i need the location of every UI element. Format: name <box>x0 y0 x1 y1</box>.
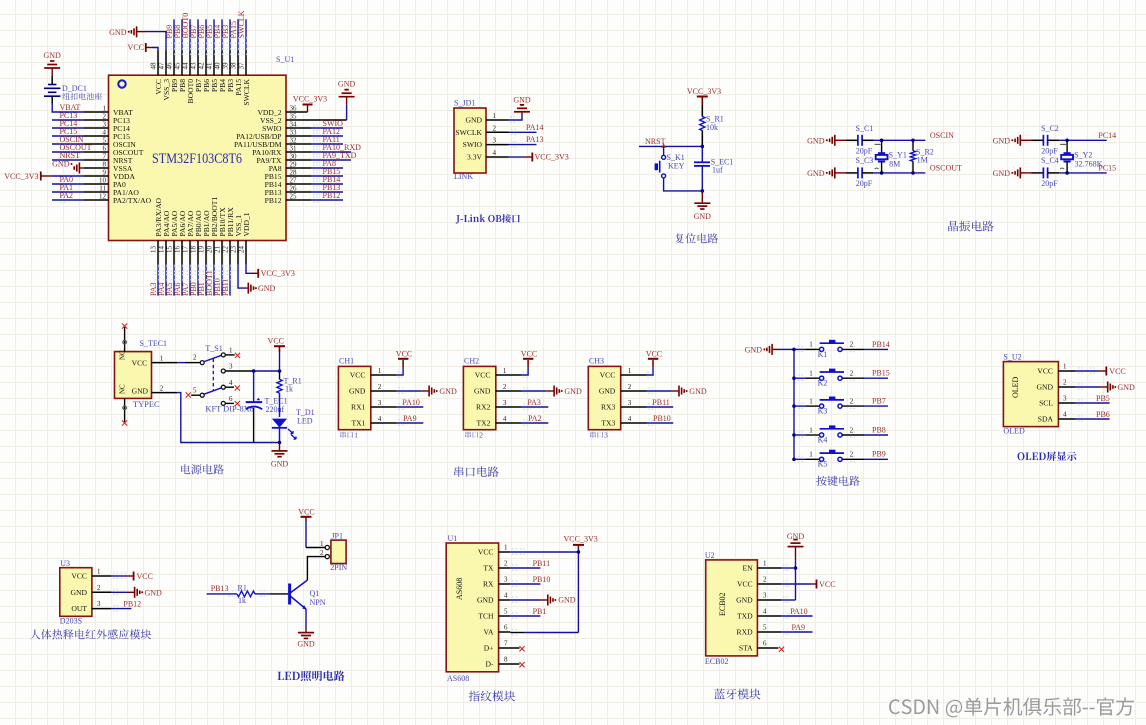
title LED lighting circuit <box>278 671 345 682</box>
svg-text:VCC: VCC <box>137 572 153 581</box>
fingerprint TX wire PB11 <box>510 559 550 570</box>
svg-text:EN: EN <box>742 564 753 573</box>
resistor S_R2 1M <box>910 139 933 175</box>
CH1 VCC port <box>396 349 412 377</box>
top net wires <box>165 10 250 54</box>
svg-text:36: 36 <box>290 105 298 113</box>
svg-text:32: 32 <box>290 137 298 145</box>
svg-text:1: 1 <box>809 341 813 349</box>
connector TEC1 TYPEC body <box>115 339 168 409</box>
svg-text:2: 2 <box>160 385 164 393</box>
wire VCC/VA rail <box>510 549 580 635</box>
capacitor S_C4 20pF <box>1032 156 1060 188</box>
svg-text:45: 45 <box>173 62 181 70</box>
svg-text:NPN: NPN <box>310 598 326 607</box>
svg-text:3: 3 <box>604 431 608 440</box>
CH1 RX wire PA10 <box>397 398 424 410</box>
svg-text:PB10: PB10 <box>533 575 551 584</box>
svg-text:PB14: PB14 <box>872 340 890 349</box>
svg-text:VCC_3V3: VCC_3V3 <box>535 153 569 162</box>
JD1 pin2 wire PA14 <box>509 123 544 135</box>
svg-text:ECB02: ECB02 <box>705 657 729 666</box>
svg-text:VCC_3V3: VCC_3V3 <box>687 87 721 96</box>
svg-text:GND: GND <box>349 387 366 396</box>
connector JD1 J-Link body <box>454 99 509 181</box>
svg-text:PA9: PA9 <box>403 414 417 423</box>
svg-text:GND: GND <box>439 387 457 396</box>
VCC_3V3 port fingerprint <box>564 535 598 551</box>
svg-text:D+: D+ <box>484 644 494 653</box>
ground at VSS_3 pin47 <box>109 26 166 50</box>
svg-text:PA10: PA10 <box>402 398 420 407</box>
svg-text:2: 2 <box>850 370 854 378</box>
svg-text:1: 1 <box>809 426 813 434</box>
title key circuit <box>816 476 859 486</box>
svg-text:2: 2 <box>503 383 507 391</box>
svg-text:2: 2 <box>479 431 483 440</box>
svg-text:34: 34 <box>290 121 298 129</box>
bluetooth EN/GND rail <box>782 561 798 603</box>
svg-text:PA3: PA3 <box>527 398 541 407</box>
MCU bottom pin stubs 13-24 <box>149 241 246 265</box>
svg-text:1: 1 <box>160 355 164 363</box>
svg-text:5: 5 <box>504 608 508 616</box>
svg-text:NC: NC <box>119 350 127 360</box>
svg-text:AS608: AS608 <box>455 578 464 600</box>
svg-text:8: 8 <box>103 161 107 169</box>
svg-text:RX: RX <box>483 580 494 589</box>
svg-text:PB7: PB7 <box>872 397 886 406</box>
ground at VSS_1 pin23 <box>238 265 276 294</box>
title fingerprint module <box>469 691 516 702</box>
push button K2 <box>794 369 890 388</box>
svg-text:LED: LED <box>297 416 313 425</box>
svg-text:S_U1: S_U1 <box>276 55 294 64</box>
resistor T_R1 1k <box>277 371 302 417</box>
svg-text:VCC: VCC <box>819 580 835 589</box>
OLED GND wire <box>1076 382 1135 393</box>
svg-text:6: 6 <box>229 395 233 403</box>
svg-text:2: 2 <box>493 124 497 132</box>
svg-text:VCC: VCC <box>521 349 537 358</box>
svg-text:1: 1 <box>97 568 101 576</box>
title crystal circuit <box>948 221 994 232</box>
svg-text:VCC: VCC <box>646 349 662 358</box>
svg-text:1uf: 1uf <box>712 165 723 174</box>
svg-text:RX2: RX2 <box>476 403 491 412</box>
svg-text:VCC: VCC <box>128 43 144 52</box>
svg-text:47: 47 <box>157 62 165 70</box>
switch T_S1 KFT DIP-8X8 <box>177 344 281 414</box>
svg-text:33: 33 <box>290 129 298 137</box>
svg-text:STA: STA <box>739 644 753 653</box>
ground at battery <box>44 51 62 76</box>
svg-text:PA2: PA2 <box>528 414 542 423</box>
svg-text:K5: K5 <box>818 460 828 469</box>
title serial circuit <box>454 466 498 477</box>
svg-text:38: 38 <box>229 62 237 70</box>
svg-text:2: 2 <box>628 383 632 391</box>
fingerprint D- no connect <box>519 662 524 667</box>
svg-text:3: 3 <box>97 600 101 608</box>
svg-text:K4: K4 <box>818 435 828 444</box>
OLED SDA wire PB6 <box>1076 410 1110 422</box>
CH3 TX wire PB10 <box>647 414 674 426</box>
svg-text:PB12: PB12 <box>123 599 141 608</box>
svg-text:VCC_3V3: VCC_3V3 <box>564 535 598 544</box>
svg-text:6: 6 <box>763 640 767 648</box>
CH2 TX wire PA2 <box>522 414 549 426</box>
svg-text:30: 30 <box>290 153 298 161</box>
VCC port led <box>298 508 314 548</box>
svg-text:2: 2 <box>850 341 854 349</box>
resistor R1 1k <box>207 584 288 606</box>
svg-text:KEY: KEY <box>668 162 685 171</box>
svg-text:16: 16 <box>173 246 181 254</box>
wire battery to VBAT <box>52 104 84 113</box>
svg-text:VCC_3V3: VCC_3V3 <box>293 95 327 104</box>
svg-text:PA9: PA9 <box>792 623 806 632</box>
svg-text:S_TEC1: S_TEC1 <box>140 339 168 348</box>
svg-text:GND: GND <box>993 169 1011 178</box>
svg-text:17: 17 <box>181 246 189 254</box>
VCC_3V3 port at VDD_2 pin36 <box>293 95 327 113</box>
wire VCC to JP1 pin1 <box>306 547 325 549</box>
svg-text:GND: GND <box>736 596 753 605</box>
svg-text:PB10: PB10 <box>653 414 671 423</box>
svg-text:VCC: VCC <box>475 371 491 380</box>
svg-text:40: 40 <box>213 62 221 70</box>
capacitor T_EC1 220uf <box>246 371 288 443</box>
svg-text:OLED: OLED <box>1011 376 1020 398</box>
ground at VSS_2 pin35 <box>338 80 356 121</box>
svg-text:7: 7 <box>504 640 508 648</box>
bluetooth TXD wire PA10 <box>782 607 813 618</box>
svg-text:PB9: PB9 <box>872 450 886 459</box>
CH1 GND wire <box>397 386 457 397</box>
svg-text:TX2: TX2 <box>476 419 490 428</box>
svg-text:K2: K2 <box>818 379 828 388</box>
fingerprint U1 AS608 body <box>446 534 519 683</box>
svg-text:GND: GND <box>1037 383 1054 392</box>
svg-text:VCC_3V3: VCC_3V3 <box>4 172 38 181</box>
svg-text:9: 9 <box>103 169 107 177</box>
svg-text:6: 6 <box>103 145 107 153</box>
OLED VCC wire <box>1076 367 1126 376</box>
svg-text:6: 6 <box>504 624 508 632</box>
svg-text:20pF: 20pF <box>856 147 873 156</box>
CH3 VCC port <box>646 349 662 377</box>
svg-text:PC15: PC15 <box>1098 164 1116 173</box>
ground at VSSA pin8 <box>52 160 84 174</box>
VCC_3V3 port at VDD_1 pin24 <box>246 265 295 278</box>
fingerprint TCH wire PB1 <box>510 607 546 618</box>
svg-text:S_U2: S_U2 <box>1003 353 1021 362</box>
svg-text:RX3: RX3 <box>601 403 616 412</box>
wire Q1 emitter to ground <box>297 609 315 648</box>
svg-text:20pF: 20pF <box>1041 147 1058 156</box>
svg-text:U1: U1 <box>448 534 458 543</box>
capacitor S_C2 20pF <box>1032 124 1060 156</box>
svg-text:2PIN: 2PIN <box>330 563 347 572</box>
svg-text:GND: GND <box>271 460 289 469</box>
svg-text:2: 2 <box>504 560 508 568</box>
connector CH3 body <box>588 357 646 430</box>
MCU U1 STM32F103C8T6 body <box>109 55 295 241</box>
svg-text:1: 1 <box>378 367 382 375</box>
svg-text:3: 3 <box>229 363 233 371</box>
svg-text:19: 19 <box>197 246 205 254</box>
svg-text:Q1: Q1 <box>310 589 320 598</box>
svg-text:VCC: VCC <box>1109 367 1125 376</box>
capacitor S_C3 20pF <box>846 156 874 188</box>
svg-text:OSCOUT: OSCOUT <box>930 164 962 173</box>
svg-text:4: 4 <box>503 415 507 423</box>
svg-text:PB5: PB5 <box>1096 394 1110 403</box>
connector JP1 2PIN body <box>320 532 347 573</box>
svg-text:GND: GND <box>558 596 576 605</box>
svg-text:7: 7 <box>103 153 107 161</box>
svg-text:T_S1: T_S1 <box>205 344 222 353</box>
svg-text:3: 3 <box>103 121 107 129</box>
svg-text:TYPEC: TYPEC <box>133 400 160 409</box>
svg-text:1: 1 <box>628 367 632 375</box>
svg-text:3: 3 <box>493 137 497 145</box>
svg-text:1: 1 <box>809 451 813 459</box>
svg-text:35: 35 <box>290 113 298 121</box>
svg-text:2: 2 <box>320 549 324 557</box>
svg-text:1: 1 <box>809 397 813 405</box>
svg-text:41: 41 <box>205 62 213 70</box>
transistor Q1 NPN <box>290 580 326 610</box>
svg-text:K1: K1 <box>818 350 828 359</box>
svg-text:PB15: PB15 <box>872 369 890 378</box>
svg-text:14: 14 <box>157 246 165 254</box>
svg-text:VCC_3V3: VCC_3V3 <box>261 269 295 278</box>
svg-text:U2: U2 <box>705 551 715 560</box>
svg-text:PA10: PA10 <box>790 607 808 616</box>
svg-text:GND: GND <box>745 345 763 354</box>
CH2 RX wire PA3 <box>522 398 549 410</box>
ground keys <box>745 344 794 355</box>
svg-text:CH2: CH2 <box>464 357 479 366</box>
JD1 pin4 wire VCC_3V3 <box>509 153 569 162</box>
svg-text:PA2/TX/AO: PA2/TX/AO <box>113 196 152 205</box>
MCU top pin stubs 37-48 <box>149 51 246 76</box>
svg-text:VCC: VCC <box>132 359 148 368</box>
title J-Link OB interface <box>456 214 520 224</box>
svg-text:GND: GND <box>1118 383 1136 392</box>
svg-text:GND: GND <box>694 212 712 221</box>
svg-text:46: 46 <box>165 62 173 70</box>
svg-text:4: 4 <box>628 415 632 423</box>
ground power <box>271 443 289 469</box>
svg-text:SWIO: SWIO <box>463 140 483 149</box>
svg-text:3: 3 <box>503 399 507 407</box>
wire JP1 pin2 to Q1 collector <box>307 557 325 581</box>
svg-text:42: 42 <box>197 62 205 70</box>
svg-text:2: 2 <box>97 584 101 592</box>
push button K3 <box>794 397 888 416</box>
CH2 GND wire <box>522 386 582 397</box>
svg-text:37: 37 <box>237 62 245 70</box>
svg-text:OLED: OLED <box>1003 427 1025 436</box>
label serial3 <box>590 432 603 439</box>
svg-text:PB6: PB6 <box>1096 410 1110 419</box>
TYPEC NC pins top/bottom <box>119 323 149 425</box>
svg-text:39: 39 <box>221 62 229 70</box>
connector CH1 body <box>338 357 396 430</box>
JD1 pin3 wire PA13 <box>509 135 544 147</box>
VCC_3V3 port reset <box>687 87 721 105</box>
svg-text:4: 4 <box>763 608 767 616</box>
title power circuit <box>181 464 224 474</box>
battery DC1 button cell <box>44 76 102 112</box>
svg-text:10: 10 <box>99 177 107 185</box>
ground crystal2 bottom <box>993 167 1032 178</box>
svg-text:2: 2 <box>850 426 854 434</box>
key bus wire <box>792 348 796 462</box>
svg-text:VCC: VCC <box>350 371 366 380</box>
svg-text:2: 2 <box>763 576 767 584</box>
NRST net wire <box>639 137 704 148</box>
capacitor S_EC1 1uf <box>694 146 733 192</box>
svg-text:D_DC1: D_DC1 <box>62 84 87 93</box>
svg-text:GND: GND <box>807 136 825 145</box>
svg-text:S_Y1: S_Y1 <box>889 151 907 160</box>
svg-text:TX3: TX3 <box>601 419 615 428</box>
PIR OUT wire PB12 <box>111 599 141 611</box>
title PIR module <box>30 629 151 639</box>
ground crystal1 bottom <box>807 167 846 178</box>
VCC_3V3 port at VDDA pin9 <box>4 172 84 182</box>
VCC port at pin48 <box>128 43 158 52</box>
title OLED display <box>1018 451 1077 461</box>
title reset circuit <box>675 233 718 243</box>
svg-text:5: 5 <box>193 387 197 395</box>
svg-text:20: 20 <box>205 246 213 254</box>
svg-text:43: 43 <box>189 62 197 70</box>
svg-text:20pF: 20pF <box>856 179 873 188</box>
svg-text:SWCLK: SWCLK <box>237 10 246 38</box>
connector CH2 body <box>463 357 521 430</box>
svg-text:3.3V: 3.3V <box>467 153 482 162</box>
svg-text:2: 2 <box>850 397 854 405</box>
svg-text:GND: GND <box>599 387 616 396</box>
ground crystal1 top <box>807 135 846 146</box>
svg-text:GND: GND <box>145 588 163 597</box>
svg-text:15: 15 <box>165 246 173 254</box>
resistor S_R1 10k <box>700 105 724 146</box>
capacitor S_C1 20pF <box>846 124 874 156</box>
svg-text:SCL: SCL <box>1039 399 1053 408</box>
fingerprint GND wire <box>510 595 575 606</box>
svg-text:PB13: PB13 <box>211 584 229 593</box>
svg-text:VCC: VCC <box>478 548 494 557</box>
svg-text:S_JD1: S_JD1 <box>454 99 475 108</box>
title bluetooth module <box>714 689 760 700</box>
svg-text:1: 1 <box>493 112 497 120</box>
svg-text:GND: GND <box>477 596 494 605</box>
CH2 VCC port <box>521 349 537 377</box>
svg-text:ECB02: ECB02 <box>718 592 727 616</box>
svg-text:1: 1 <box>763 560 767 568</box>
svg-text:S_C1: S_C1 <box>856 124 874 133</box>
CH1 TX wire PA9 <box>397 414 424 426</box>
svg-text:GND: GND <box>132 387 149 396</box>
power bottom wire <box>177 393 281 445</box>
svg-text:GND: GND <box>474 387 491 396</box>
svg-text:28: 28 <box>290 169 298 177</box>
MCU left pin stubs 1-12 <box>84 105 109 201</box>
svg-text:220uf: 220uf <box>266 405 285 414</box>
svg-text:VCC: VCC <box>298 508 314 517</box>
svg-text:4: 4 <box>1063 411 1067 419</box>
svg-text:NRST: NRST <box>645 137 666 146</box>
svg-text:18: 18 <box>189 246 197 254</box>
TYPEC pin1 pin2 stubs <box>152 355 178 393</box>
svg-text:RX1: RX1 <box>351 403 366 412</box>
svg-text:4: 4 <box>493 149 497 157</box>
svg-text:48: 48 <box>149 62 157 70</box>
PIR GND wire <box>111 587 162 598</box>
svg-text:1k: 1k <box>285 385 293 394</box>
svg-text:D-: D- <box>485 660 493 669</box>
svg-text:24: 24 <box>237 246 245 254</box>
svg-text:PB8: PB8 <box>872 425 886 434</box>
svg-text:AS608: AS608 <box>447 674 469 683</box>
label serial1 <box>340 432 353 439</box>
CH3 RX wire PB11 <box>647 398 674 410</box>
svg-text:GND: GND <box>807 169 825 178</box>
svg-text:GND: GND <box>513 96 531 105</box>
svg-text:1: 1 <box>354 431 358 440</box>
svg-text:LINK: LINK <box>454 172 473 181</box>
svg-text:1: 1 <box>503 367 507 375</box>
svg-text:4: 4 <box>103 129 107 137</box>
svg-text:GND: GND <box>52 160 70 169</box>
svg-text:PC14: PC14 <box>1098 131 1116 140</box>
svg-text:U3: U3 <box>60 559 70 568</box>
svg-text:1k: 1k <box>238 596 246 605</box>
svg-text:2: 2 <box>1063 379 1067 387</box>
svg-text:VCC: VCC <box>600 371 616 380</box>
svg-text:PA14: PA14 <box>526 123 544 132</box>
svg-text:1: 1 <box>103 105 107 113</box>
svg-text:VCC: VCC <box>268 337 284 346</box>
svg-text:5: 5 <box>103 137 107 145</box>
svg-text:2: 2 <box>193 354 197 362</box>
ground reset <box>694 191 712 221</box>
svg-text:K3: K3 <box>818 407 828 416</box>
svg-text:VDD_1: VDD_1 <box>242 212 251 236</box>
svg-text:VCC: VCC <box>1037 367 1053 376</box>
svg-text:GND: GND <box>109 28 127 37</box>
svg-text:GND: GND <box>466 116 483 125</box>
svg-text:20pF: 20pF <box>1041 179 1058 188</box>
svg-text:VA: VA <box>484 628 495 637</box>
svg-text:25: 25 <box>290 193 298 201</box>
OLED SCL wire PB5 <box>1076 394 1110 406</box>
svg-text:26: 26 <box>290 185 298 193</box>
svg-text:4: 4 <box>504 592 508 600</box>
svg-text:GND: GND <box>564 387 582 396</box>
push button K5 <box>794 450 888 469</box>
svg-text:4: 4 <box>378 415 382 423</box>
svg-text:GND: GND <box>297 639 315 648</box>
bluetooth U2 ECB02 body <box>705 551 782 666</box>
right net wires <box>311 119 361 202</box>
